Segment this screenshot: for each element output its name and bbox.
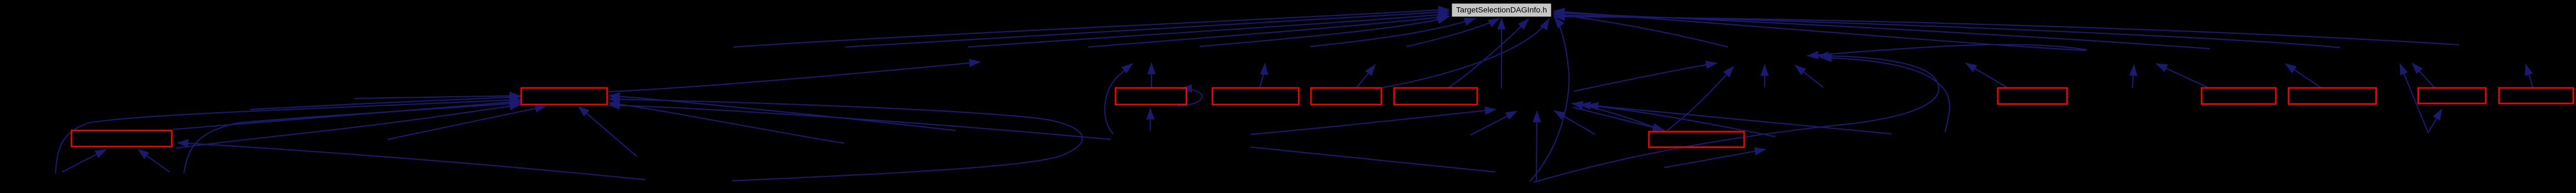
edge K to nr3 <box>2412 63 2434 87</box>
edge rleaf2 to gray <box>1554 13 2210 49</box>
edge r4b to B bottom <box>138 149 169 172</box>
edge to A bottom 1 <box>388 106 546 139</box>
red box A <box>521 88 607 105</box>
edge leaf2 to gray <box>845 12 1449 47</box>
edge L to nr4 <box>2526 64 2533 87</box>
edge A to n1 <box>607 62 980 92</box>
red box G2 <box>1649 132 1744 147</box>
edge r3d to r4 low <box>1251 147 1495 172</box>
edge H to n4 <box>1966 63 2009 88</box>
edge r2x to n2 <box>1795 65 1823 87</box>
edge r4 wrap to gray right <box>1530 17 1569 181</box>
edge up into C bottom <box>1150 108 1151 131</box>
edge hub to n2 <box>1574 63 1717 91</box>
edge n3 to hub <box>1580 105 1775 137</box>
edge far right to n2 <box>1807 45 2087 56</box>
edge V to K bottom <box>2428 109 2442 133</box>
edge n7 to gray <box>1310 18 1475 46</box>
edge n8 to gray <box>1407 18 1499 46</box>
edge arc n3 to n2 <box>1821 58 1950 132</box>
red box B <box>71 131 172 147</box>
edge big arc r4 to n2 <box>1533 56 1939 182</box>
edge n9 to nr1 <box>2132 65 2134 88</box>
edge C to n6 <box>1151 63 1152 88</box>
edge I to nr1 <box>2156 64 2210 88</box>
red box I <box>2202 88 2276 104</box>
edge E to n8 <box>1356 65 1375 88</box>
edge r4a to B bottom <box>62 149 106 172</box>
edge G2 to n2 <box>1667 66 1734 131</box>
edge wrap around C left to n6 <box>1105 64 1133 134</box>
edge to A bottom 2 <box>578 106 637 157</box>
edge F to gray <box>1447 19 1529 88</box>
edge n6 to gray <box>1200 17 1448 46</box>
edge leaf1 to gray <box>733 9 1449 47</box>
svg-text:TargetSelectionDAGInfo.h: TargetSelectionDAGInfo.h <box>1456 6 1547 15</box>
red box E <box>1311 88 1381 105</box>
edge G2 to hub <box>1572 103 1666 132</box>
edge V to nr3 <box>2400 64 2428 133</box>
red box F <box>1394 88 1477 105</box>
edge J to nr2 <box>2285 64 2321 88</box>
edge rleaf1 to gray <box>1554 11 2086 50</box>
edge r4 to n3 <box>1664 149 1766 168</box>
red box H <box>1998 88 2067 104</box>
edge r3e to hub <box>1470 111 1517 135</box>
red box J <box>2289 88 2376 104</box>
edge r4 vert to hub <box>1536 111 1537 181</box>
red box L <box>2499 88 2573 103</box>
edge r3b to A right <box>609 96 955 131</box>
edge r4c to B right <box>177 143 645 180</box>
edge n1 to gray <box>968 14 1449 47</box>
red box C <box>1115 88 1186 105</box>
edge D to n7 <box>1259 64 1265 88</box>
red box D <box>1212 88 1299 105</box>
edge big loop to A right <box>609 99 1082 181</box>
edge E to gray right <box>1375 19 1549 89</box>
edge leaf3 to gray <box>1088 16 1449 47</box>
edge n2 to gray <box>1554 14 1728 47</box>
red box K <box>2418 88 2486 103</box>
edge hub to gray vertical <box>1501 18 1502 88</box>
edge low to A <box>176 105 521 148</box>
edge r3d to hub <box>1251 109 1496 134</box>
edge n3c to hub <box>1587 105 1891 134</box>
edge r3a to A right <box>609 103 844 143</box>
edge B to A <box>173 101 521 129</box>
edge flat2 to A <box>354 96 521 98</box>
edge n10 to n2 <box>1764 65 1765 87</box>
edge r3c to A right <box>609 105 1110 139</box>
edge rleaf4 to gray <box>1554 17 2459 45</box>
edge r4a to A wrap left of B <box>55 100 521 173</box>
edge rleaf3 to gray <box>1554 15 2340 48</box>
edge loop around C right <box>1178 88 1202 106</box>
edge flat to A <box>250 97 521 109</box>
edge r4b to A wrap right of B <box>184 103 521 173</box>
edge r3f to hub <box>1554 111 1595 134</box>
edge hub to G2 <box>1573 107 1664 130</box>
node TargetSelectionDAGInfo.h <box>1452 3 1551 17</box>
